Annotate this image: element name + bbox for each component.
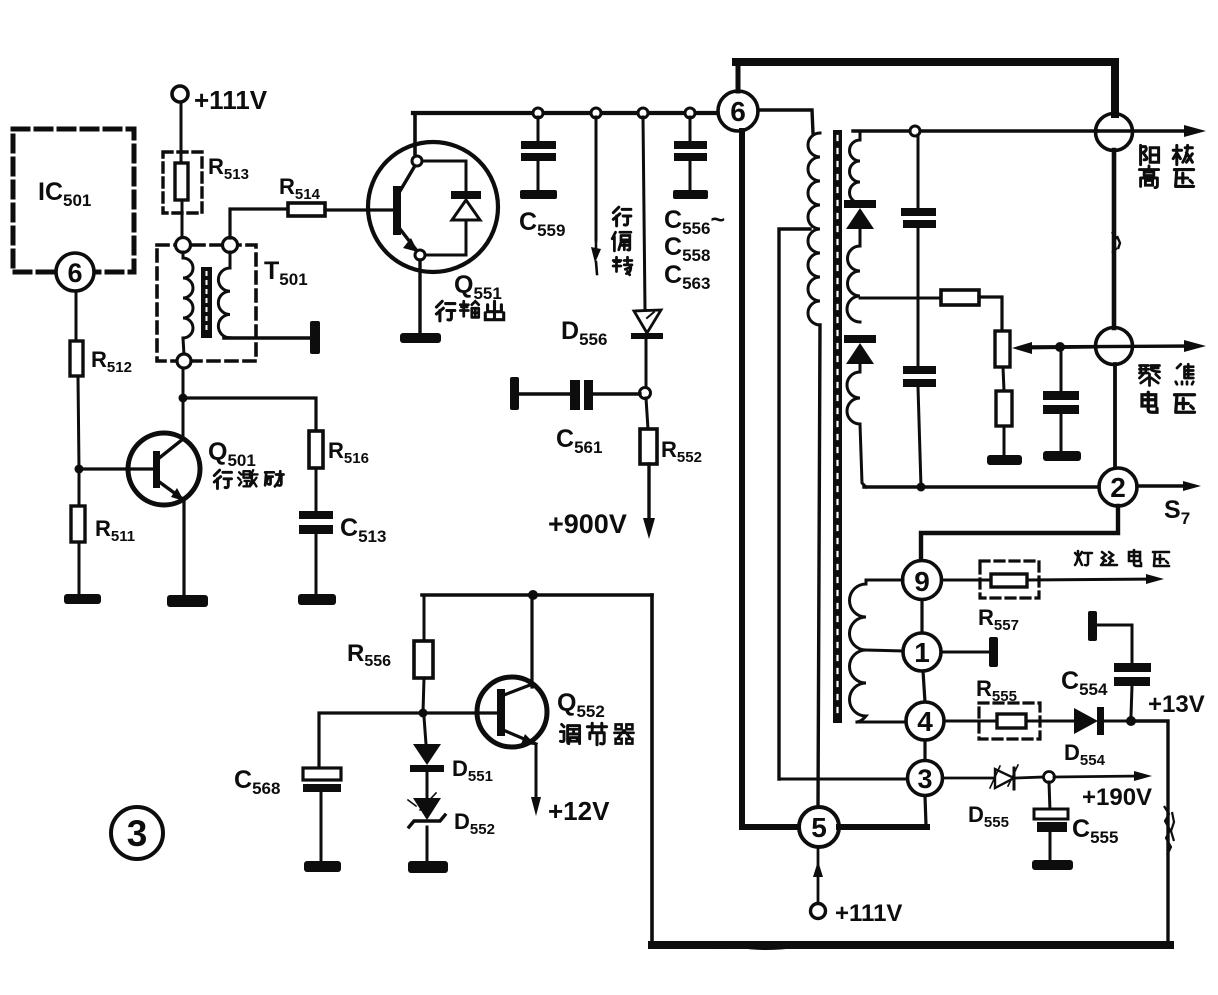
wiper arrow [1012,342,1032,354]
node 6 (IC501 pin circle) [56,253,94,291]
diode HV rectifier 1 [844,200,876,208]
wire pin6 up to HV bus [736,62,741,91]
node base junction dot [75,465,84,474]
transistor Q551 emitter lead with arrow [400,229,417,251]
ground (C568) [304,861,341,872]
inductor flyback HV secondary middle [847,246,860,322]
wire R552 to +900V arrow [647,464,650,520]
svg-text:2: 2 [1110,472,1126,503]
node T501 bottom terminal [177,354,191,368]
wire to focus divider [979,297,1002,331]
node 4 [906,702,944,740]
transistor Q552 base bar [497,689,505,736]
wire thick anode to focus [1112,150,1117,328]
resistor R514 [288,203,325,216]
svg-text:4: 4 [917,706,933,737]
capacitor C559 [537,117,540,142]
node rail junction (D556) [638,108,648,118]
wire line B to pin3 [779,778,907,781]
wire D556 to C561 node [645,339,648,388]
node rail junction (C556) [685,108,695,118]
ground (Q501 emitter) [167,595,208,607]
svg-text:3: 3 [917,764,932,794]
capacitor C561 [519,392,571,395]
wire thick bottom bus [652,941,1170,949]
node collector junction dot [179,394,188,403]
svg-text:5: 5 [811,812,827,843]
wire Q501 emitter down to ground [182,500,185,596]
resistor R557 dashed box [980,561,1039,598]
wire focus output with arrow [1025,346,1196,347]
wire pin6 to R512 [75,291,78,341]
node Q552 base junction dot [419,709,428,718]
node Q552 rail junction dot [528,590,538,600]
wire rail corner to Q551 collector [413,113,417,160]
diode internal damper of Q551 [422,161,466,255]
wire pin9 to aux winding [866,579,903,582]
wire focus tap [860,297,941,300]
ground (R511) [64,594,101,604]
wire D554 to +13V node [1104,720,1130,723]
core T501 [201,267,212,338]
capacitor C568 [303,768,341,780]
wire +13V node to bottom bus [1134,721,1168,942]
node rail junction (C559) [533,108,543,118]
diode HV rectifier 2 [844,335,876,343]
node 5 (flyback pin) [799,807,839,847]
ground (C513) [298,594,336,605]
wire +111V to R513 [180,102,183,164]
wire pin9 through R557 to heater output [942,579,991,582]
inductor flyback aux winding [850,580,866,722]
wire Q552 collector rail [422,593,652,597]
wire Q501 collector up to node [182,398,185,440]
node junction dot on pin2 wire [917,483,926,492]
transistor Q2 Q551 circle [368,142,498,272]
wire C513 to ground [315,534,318,595]
wire D552 to ground [426,827,429,862]
inductor flyback HV secondary upper [850,133,861,203]
ground (D552) [408,861,448,873]
wire primary tap to line B [779,229,810,779]
wire pin1 to pin4 [923,671,925,702]
resistor R513 dashed box [163,152,202,213]
ground (Q551 emitter) [400,333,441,343]
wire pin1 to tab [941,651,990,654]
inductor flyback primary winding [808,133,820,325]
potentiometer focus upper [995,331,1010,367]
transistor Q552 emitter lead with arrow [503,730,536,744]
ground (focus divider) [987,455,1022,465]
wire rail to D556 [643,117,645,310]
ground (C555) [1032,860,1073,870]
transistor Q501 emitter lead with arrow [158,481,184,500]
terminal tab (pin1) [989,637,998,667]
wire T501 bottom to collector node [182,368,185,398]
wire pin2 down to pin9 [921,506,1118,561]
wire pin6 to flyback primary [758,110,813,133]
svg-text:9: 9 [914,566,930,597]
terminal tab (C554) [1088,611,1097,641]
wire R514 to Q551 base [325,208,394,211]
svg-text:3: 3 [127,813,148,854]
transistor Q551 collector lead [400,164,416,191]
wire thick HV top bus [736,62,1115,114]
resistor R552 [646,398,648,429]
wire base node to Q552 [423,711,498,714]
wire T501 right terminal up to R514 [230,209,288,238]
node T501 top-left terminal [176,238,191,253]
wire thick pin6 down to pin5 [742,131,800,827]
wire thick focus to S circle [1113,364,1117,469]
capacitor C556~C558 C563 [689,117,692,142]
wire rail down to bottom bus [650,595,654,944]
wire S7 output [1137,484,1192,488]
capacitor C555 [1049,782,1050,811]
svg-text:6: 6 [730,96,746,127]
wire collector node to R516 [183,398,316,431]
wire pin5 to +111V with arrow [817,847,820,903]
node HV top junction [910,126,920,136]
terminal +111V bottom [811,904,826,919]
label 聚焦电压 [1140,366,1160,386]
wire aux bottom to pin4 [857,721,906,724]
svg-text:+900V: +900V [548,509,627,539]
wire thick pin5 right to pin3 branch [839,824,927,830]
wire HV secondary bottom to pin 2 [864,485,1099,488]
terminal tab (C561 left) [510,377,519,410]
svg-text:6: 6 [67,258,82,288]
wire pin4 to pin3 [923,740,926,761]
svg-text:+111V: +111V [194,85,268,115]
diode D552 zener [426,772,429,798]
resistor R512 [70,341,83,376]
node +13V junction dot [1126,716,1136,726]
label 阳极高压 [1141,145,1159,164]
node 1 [903,633,941,671]
transistor Q3 Q552 circle [477,677,547,747]
resistor R555 [997,714,1026,728]
diode D556 [634,310,661,333]
diode D551 [424,717,426,744]
node 2 (screen pin) [1099,468,1137,506]
scan noise marks [1112,232,1120,253]
wire pin3 to D555 [943,777,993,780]
transistor Q1 Q501 circle [128,433,200,505]
resistor R557 [991,574,1027,587]
wire aux tap to pin1 [866,650,903,651]
wire pin9 to pin1 [920,600,923,633]
resistor focus lower [1003,367,1004,391]
resistor focus series [941,290,979,305]
label 灯丝电压 [1075,551,1092,565]
wire R512 to base node [78,376,79,469]
terminal +111V top [172,86,188,102]
wire base node left to C568 [319,713,423,769]
node Q551 collector dot [412,156,422,166]
node 3 (flyback pin) [908,761,943,796]
wire Q551 emitter to ground [418,260,421,334]
node T501 top-right terminal [223,238,238,253]
IC U1 IC501 dashed box [13,129,134,272]
transformer T501 dashed box [157,245,256,361]
resistor R556 [423,595,426,641]
wire HV secondary top to anode [853,129,1097,132]
wire D555 to +190V [1016,777,1044,778]
diode D554 [1074,708,1098,734]
capacitor HV filter lower [903,366,936,374]
node 6 (flyback pin 6) [718,91,758,131]
node rail junction (deflection) [591,108,601,118]
svg-text:+190V: +190V [1082,784,1152,811]
inductor flyback HV secondary lower [847,372,866,487]
svg-text:1: 1 [914,637,930,668]
capacitor focus filter [1060,352,1063,392]
transistor Q501 collector lead [158,439,183,459]
anode terminal circle [1096,114,1133,151]
resistor R513 [175,163,188,200]
wire R516 to C513 [315,468,318,512]
wire primary bottom to pin 5 [818,325,820,807]
wire pin4 through R555 to D554 [944,720,997,723]
capacitor HV filter upper [917,135,920,209]
label 行偏转 vertical [613,207,631,226]
svg-text:+111V: +111V [835,900,902,927]
resistor R516 [309,431,323,468]
resistor R511 [78,469,81,506]
inductor T501 secondary winding [218,252,230,338]
node focus junction dot [1055,342,1065,352]
capacitor C513 [299,511,333,519]
transistor Q551 base bar [393,186,401,235]
core flyback [833,130,842,723]
wire base node to Q501 base [79,467,154,470]
wire R511 to ground [78,542,81,595]
wire T501 secondary to chassis tab [224,336,311,340]
capacitor C554 [1097,625,1132,664]
focus terminal circle [1096,328,1133,365]
wire pin3 down to pin5 bus [925,796,926,825]
node +190V junction [1044,772,1055,783]
ground (focus cap) [1043,451,1081,461]
terminal tab (T501 secondary) [310,321,320,354]
node Q551 emitter dot [415,250,425,260]
node C561/R552 junction [640,388,651,399]
node 9 (heater pin) [903,561,942,600]
svg-text:+13V: +13V [1148,691,1205,718]
wire R513 to T501 [181,200,184,238]
resistor R555 dashed box [979,703,1040,739]
wire anode output with arrow [1097,129,1196,133]
inductor T501 primary winding [183,252,193,355]
wire top rail (collector) [413,111,719,115]
wire R556 to base node [423,678,424,713]
transistor Q501 base bar [153,451,160,488]
diode D555 (sketchy) [995,769,1014,788]
transistor Q552 collector lead [504,598,532,695]
svg-text:+12V: +12V [548,796,610,826]
wire line deflection yoke [595,117,598,240]
node page ref circle 3 [111,807,163,859]
wire Q552 emitter to +12V arrow [535,744,538,799]
